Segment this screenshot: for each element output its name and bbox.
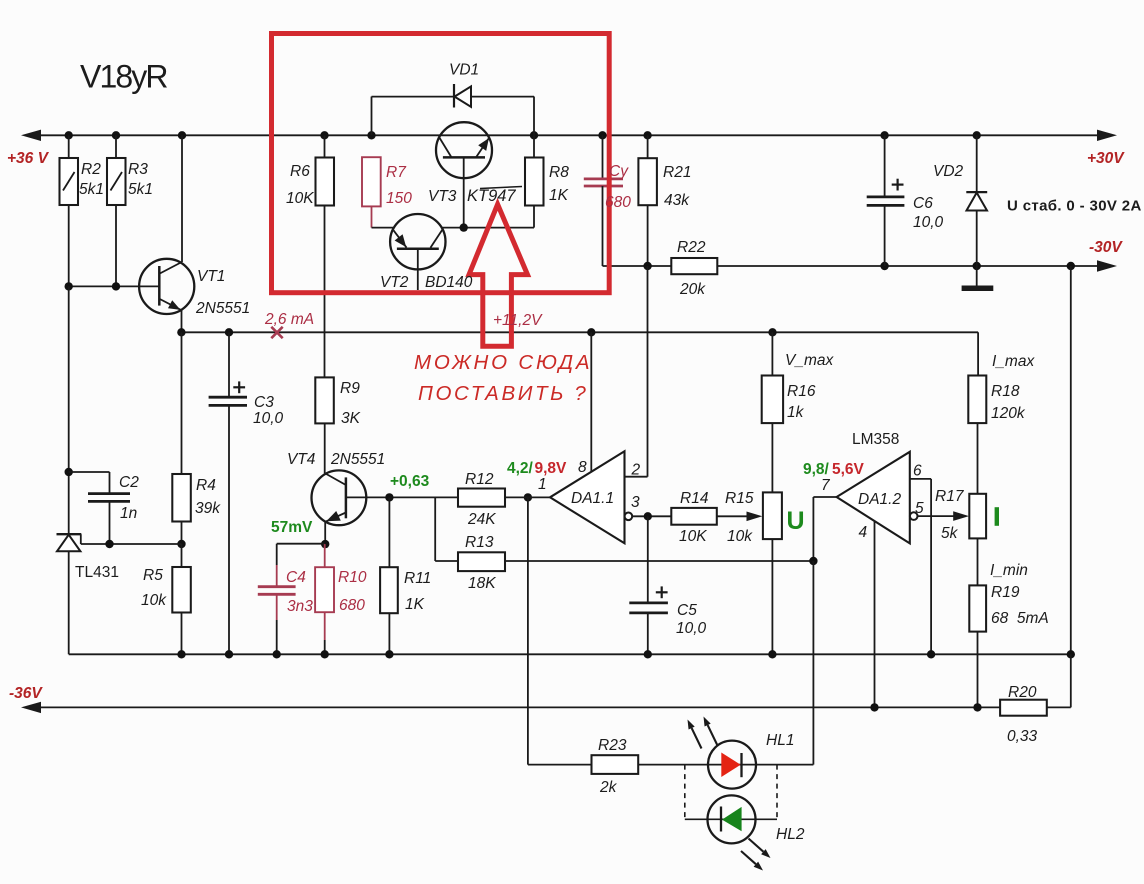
svg-text:20k: 20k <box>679 281 706 298</box>
svg-text:6: 6 <box>913 463 922 480</box>
svg-text:R10: R10 <box>338 569 367 586</box>
svg-text:R16: R16 <box>787 383 816 400</box>
svg-text:U стаб. 0 - 30V 2A: U стаб. 0 - 30V 2A <box>1007 198 1142 215</box>
svg-text:R14: R14 <box>680 490 709 507</box>
svg-text:V18yR: V18yR <box>80 59 167 95</box>
svg-text:680: 680 <box>605 194 631 211</box>
svg-text:2,6 mA: 2,6 mA <box>264 311 314 328</box>
svg-text:R20: R20 <box>1008 684 1037 701</box>
svg-text:5k: 5k <box>941 525 959 542</box>
svg-text:+11,2V: +11,2V <box>493 312 543 329</box>
svg-text:-36V: -36V <box>9 685 43 702</box>
svg-text:R12: R12 <box>465 471 494 488</box>
svg-text:9,8V: 9,8V <box>535 460 568 477</box>
svg-text:Cy: Cy <box>609 163 629 180</box>
svg-text:8: 8 <box>578 459 587 476</box>
svg-text:R21: R21 <box>663 164 691 181</box>
svg-text:V_max: V_max <box>785 352 834 369</box>
svg-text:4,2/: 4,2/ <box>507 460 534 477</box>
svg-text:10k: 10k <box>727 528 753 545</box>
svg-text:2k: 2k <box>599 779 618 796</box>
svg-text:39k: 39k <box>195 500 221 517</box>
svg-text:3: 3 <box>631 494 640 511</box>
svg-text:VT2: VT2 <box>380 274 409 291</box>
svg-text:1n: 1n <box>120 505 137 522</box>
svg-text:R22: R22 <box>677 239 706 256</box>
svg-text:R11: R11 <box>404 570 431 587</box>
svg-text:R9: R9 <box>340 380 360 397</box>
svg-text:5k1: 5k1 <box>128 181 153 198</box>
svg-text:R23: R23 <box>598 737 627 754</box>
svg-text:BD140: BD140 <box>425 274 473 291</box>
svg-text:3K: 3K <box>341 410 361 427</box>
svg-text:R3: R3 <box>128 161 148 178</box>
svg-text:R2: R2 <box>81 161 101 178</box>
svg-text:43k: 43k <box>664 192 690 209</box>
svg-text:R17: R17 <box>935 488 965 505</box>
svg-text:R7: R7 <box>386 164 407 181</box>
svg-text:2N5551: 2N5551 <box>330 451 385 468</box>
svg-text:1K: 1K <box>549 187 569 204</box>
svg-text:+36 V: +36 V <box>7 150 50 167</box>
svg-text:C6: C6 <box>913 195 933 212</box>
svg-text:680: 680 <box>339 597 365 614</box>
svg-text:2N5551: 2N5551 <box>195 300 250 317</box>
svg-text:R6: R6 <box>290 163 310 180</box>
svg-text:DA1.2: DA1.2 <box>858 491 901 508</box>
svg-text:10,0: 10,0 <box>676 620 707 637</box>
svg-text:18K: 18K <box>468 575 496 592</box>
svg-text:HL1: HL1 <box>766 732 794 749</box>
svg-text:5: 5 <box>915 500 924 517</box>
svg-text:C2: C2 <box>119 474 139 491</box>
svg-text:2: 2 <box>631 462 641 479</box>
svg-text:TL431: TL431 <box>75 564 119 581</box>
svg-text:10,0: 10,0 <box>253 410 284 427</box>
svg-text:DA1.1: DA1.1 <box>571 490 614 507</box>
svg-text:LM358: LM358 <box>852 431 899 448</box>
svg-text:1K: 1K <box>405 596 425 613</box>
svg-text:68 5mA: 68 5mA <box>991 610 1049 627</box>
svg-text:R15: R15 <box>725 490 754 507</box>
svg-text:МОЖНО СЮДА: МОЖНО СЮДА <box>414 351 592 374</box>
svg-text:5k1: 5k1 <box>79 181 104 198</box>
svg-text:3n3: 3n3 <box>287 598 313 615</box>
svg-text:KT947: KT947 <box>467 187 516 205</box>
svg-text:VD2: VD2 <box>933 163 964 180</box>
svg-text:5,6V: 5,6V <box>832 461 865 478</box>
svg-text:9,8/: 9,8/ <box>803 461 830 478</box>
svg-text:10k: 10k <box>141 592 167 609</box>
svg-text:-30V: -30V <box>1089 239 1123 256</box>
svg-text:I_min: I_min <box>990 562 1028 579</box>
svg-text:VT4: VT4 <box>287 451 316 468</box>
svg-text:VT3: VT3 <box>428 188 457 205</box>
svg-text:R18: R18 <box>991 383 1020 400</box>
svg-text:C4: C4 <box>286 569 306 586</box>
svg-text:R4: R4 <box>196 477 216 494</box>
svg-text:24K: 24K <box>467 511 496 528</box>
svg-text:R5: R5 <box>143 567 163 584</box>
svg-text:C3: C3 <box>254 394 274 411</box>
svg-text:R8: R8 <box>549 164 569 181</box>
svg-text:4: 4 <box>859 524 868 541</box>
svg-text:ПОСТАВИТЬ ?: ПОСТАВИТЬ ? <box>418 382 588 405</box>
svg-text:HL2: HL2 <box>776 826 805 843</box>
svg-text:10,0: 10,0 <box>913 214 944 231</box>
svg-text:150: 150 <box>386 190 412 207</box>
svg-text:VT1: VT1 <box>197 268 225 285</box>
svg-text:10K: 10K <box>679 528 707 545</box>
svg-text:57mV: 57mV <box>271 519 313 536</box>
svg-text:1: 1 <box>538 476 547 493</box>
svg-text:R13: R13 <box>465 534 494 551</box>
svg-text:I_max: I_max <box>992 353 1035 370</box>
svg-text:10K: 10K <box>286 190 314 207</box>
svg-text:R19: R19 <box>991 584 1020 601</box>
svg-text:120k: 120k <box>991 405 1026 422</box>
svg-text:+30V: +30V <box>1087 150 1125 167</box>
svg-text:VD1: VD1 <box>449 62 479 79</box>
svg-text:C5: C5 <box>677 602 697 619</box>
svg-text:0,33: 0,33 <box>1007 728 1038 745</box>
svg-text:U: U <box>787 507 805 535</box>
svg-text:+0,63: +0,63 <box>390 473 430 490</box>
svg-text:7: 7 <box>821 477 831 494</box>
svg-text:1k: 1k <box>787 404 805 421</box>
